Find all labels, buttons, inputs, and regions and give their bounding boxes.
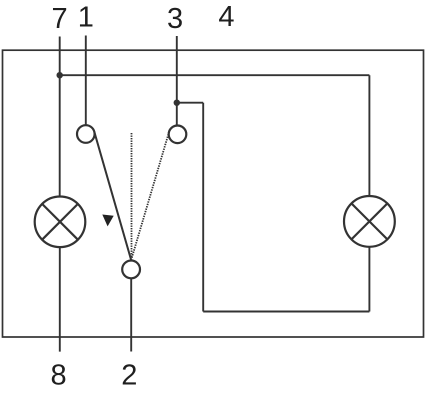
wire down to right lamp top bbox=[368, 75, 370, 196]
svg-text:2: 2 bbox=[121, 360, 137, 392]
switch arm solid (position to contact 1) bbox=[94, 132, 131, 260]
switch arm alternate position dotted to contact 3 bbox=[131, 132, 169, 259]
wire junction A horizontal to right bbox=[60, 74, 370, 76]
switch contact circle 1 bbox=[77, 125, 95, 143]
node A junction dot on wire 7 bbox=[57, 72, 63, 78]
switch contact circle 3 bbox=[169, 126, 187, 144]
svg-text:8: 8 bbox=[51, 360, 67, 392]
svg-text:3: 3 bbox=[167, 3, 183, 35]
switch common contact circle (pole 2) bbox=[122, 261, 140, 279]
enclosure outline bbox=[3, 50, 424, 337]
wire terminal 7 to junction A bbox=[59, 37, 61, 76]
wire junction A down to left lamp top bbox=[59, 75, 61, 196]
lamp E1 left (circle with cross) bbox=[35, 197, 86, 248]
actuation direction arrow bbox=[102, 215, 113, 227]
wire up to right lamp bottom bbox=[368, 247, 370, 312]
wire left lamp bottom to terminal 8 bbox=[59, 247, 61, 352]
svg-text:4: 4 bbox=[218, 1, 234, 33]
wire junction B horizontal to right bbox=[177, 102, 203, 104]
wire terminal 1 to switch contact 1 bbox=[85, 36, 87, 126]
switch arm alternate position dotted vertical bbox=[131, 133, 133, 258]
node B junction dot on wire 3 bbox=[174, 100, 180, 106]
svg-text:1: 1 bbox=[78, 2, 94, 34]
lamp E2 right (circle with cross) bbox=[344, 196, 395, 247]
wire common contact to terminal 2 bbox=[130, 278, 132, 351]
wire terminal 3 to switch contact 3 bbox=[176, 36, 178, 126]
wire vertical down from corner bbox=[202, 103, 204, 312]
svg-text:7: 7 bbox=[52, 3, 68, 35]
wire horizontal to below right lamp bbox=[203, 311, 369, 313]
